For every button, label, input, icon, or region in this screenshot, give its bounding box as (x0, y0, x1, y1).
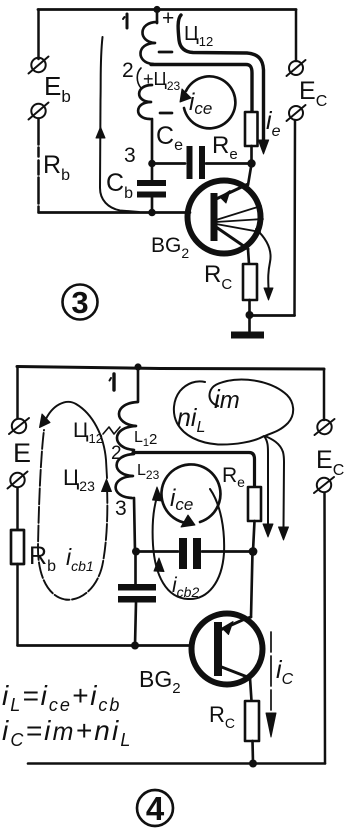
label Ce (156, 122, 183, 154)
label im (214, 384, 240, 414)
svg-text:RC: RC (209, 702, 235, 731)
junction dot emitter node circuit4 (249, 547, 258, 556)
battery EC terminal lower circuit4 (314, 477, 334, 493)
svg-text:im: im (214, 384, 240, 414)
junction dot ground node (246, 311, 254, 319)
wire RC to ground node (248, 300, 251, 314)
svg-text:BG2: BG2 (151, 234, 189, 261)
wire right border lower circuit4 (323, 493, 326, 764)
junction dot node3 emitter wire (148, 160, 156, 168)
wire collector to RC (248, 249, 249, 264)
label circuit 3 badge (63, 285, 98, 321)
battery EC terminal lower (287, 105, 306, 121)
wire emitter lead up circuit4 (247, 617, 251, 618)
svg-text:4: 4 (146, 790, 165, 827)
svg-text:EC: EC (299, 77, 327, 110)
svg-text:Rb: Rb (43, 151, 70, 184)
label ice (189, 89, 212, 118)
label RC circuit4 (209, 702, 235, 731)
resistor Re circuit4 (248, 487, 261, 521)
svg-text:2: 2 (122, 59, 134, 82)
resistor RC circuit4 (245, 701, 259, 741)
capacitor Ce circuit4 (179, 538, 201, 569)
label U12 (184, 23, 213, 49)
svg-text:iL=ice+icb: iL=ice+icb (2, 680, 121, 715)
transistor BG2 circuit4 (192, 614, 263, 685)
capacitor Ce (187, 146, 206, 179)
svg-text:iC=im+niL: iC=im+niL (2, 715, 133, 750)
equation iC (2, 715, 133, 750)
wire top border net1 (38, 8, 296, 11)
label Eb (44, 71, 71, 106)
battery E terminal lower (8, 472, 28, 489)
svg-text:BG2: BG2 (139, 666, 181, 697)
label RC (204, 261, 232, 293)
current arrow ik (256, 229, 273, 300)
label niL (177, 404, 205, 436)
label node 3 circuit4 (115, 497, 127, 520)
svg-text:iC: iC (276, 656, 294, 688)
label EC circuit4 (316, 446, 344, 479)
svg-text:Cb: Cb (106, 169, 133, 202)
battery EC terminal upper circuit4 (315, 419, 335, 435)
wire emitter horizontal (152, 162, 251, 165)
wire Cb to base circuit4 (135, 603, 136, 646)
junction dot bottom border circuit4 (249, 760, 257, 768)
wire node2 to Re (151, 65, 252, 113)
label M12 (73, 419, 103, 446)
junction dot node1 (153, 6, 160, 13)
svg-text:Eb: Eb (44, 71, 71, 106)
label node 2 (122, 59, 134, 82)
capacitor Cb (137, 180, 166, 198)
label Rb circuit4 (29, 542, 56, 575)
battery Eb terminal upper (29, 57, 49, 74)
svg-text:RC: RC (204, 261, 232, 293)
equation iL (2, 680, 121, 715)
battery Eb terminal lower (29, 103, 49, 120)
wire node3 down circuit4 (134, 498, 135, 551)
current loop ice circuit4 (161, 464, 220, 527)
wire base net bottom (39, 211, 191, 214)
resistor Re (245, 112, 258, 146)
current loop ice (180, 76, 235, 128)
label node 1 circuit4 (110, 374, 115, 390)
label plus U12 (162, 7, 174, 30)
coil link squiggle (103, 427, 120, 434)
svg-text:E: E (13, 438, 31, 468)
svg-text:ice: ice (189, 89, 212, 118)
label icb1 (66, 544, 94, 574)
svg-text:niL: niL (177, 404, 205, 436)
label Rb (43, 151, 70, 184)
wire ground node to right border corner (250, 314, 295, 317)
inductor L23 coil circuit4 (116, 454, 134, 498)
wire node3 down to Cb (151, 119, 154, 180)
label icb2 (172, 574, 199, 600)
label BG2 (151, 234, 189, 261)
current arrow ib loop (96, 37, 139, 212)
wire right border EC lower (293, 120, 296, 316)
wire right border EC upper (295, 10, 298, 62)
wire node2 to Re circuit4 (133, 453, 255, 488)
svg-text:ice: ice (170, 485, 193, 514)
svg-text:ie: ie (266, 107, 281, 140)
resistor RC (243, 264, 257, 300)
svg-text:icb2: icb2 (172, 574, 199, 600)
svg-text:+: + (162, 7, 174, 30)
svg-text:L23: L23 (137, 462, 160, 482)
wire Re bottom to emitter node circuit4 (253, 521, 255, 551)
inductor L23 coil (138, 85, 152, 119)
inductor L12 coil circuit4 (117, 402, 138, 450)
junction dot emitter node (247, 159, 255, 167)
label circuit 4 badge (137, 790, 173, 827)
current arrow niL (174, 381, 273, 537)
battery E terminal upper (9, 418, 29, 434)
label EC (299, 77, 327, 110)
wire node1 to coil circuit4 (137, 367, 140, 401)
svg-text:Ц12: Ц12 (184, 23, 213, 49)
wire emitter horizontal circuit4 (135, 550, 252, 553)
wire top border net1 circuit4 (17, 367, 324, 370)
junction dot base circuit4 (131, 642, 139, 650)
wire emitter node to transistor (248, 164, 252, 185)
wire E to Rb (16, 488, 19, 530)
wire RC to bottom border (251, 741, 254, 763)
svg-text:Re: Re (222, 464, 245, 490)
svg-text:EC: EC (316, 446, 344, 479)
svg-text:Re: Re (212, 132, 238, 163)
current arrow ie (178, 15, 269, 154)
junction dot node3 circuit4 (132, 548, 140, 556)
label ice circuit4 (170, 485, 193, 514)
current loop icb2 (153, 487, 225, 599)
label E (13, 438, 31, 468)
inductor L12 coil (140, 22, 157, 64)
junction dot base Cb (148, 209, 156, 217)
svg-text:+Ц23: +Ц23 (143, 69, 181, 93)
svg-text:Ц23: Ц23 (63, 465, 95, 494)
transistor BG2 (188, 181, 264, 254)
wire Rb to corner (16, 564, 19, 645)
wire Cb top circuit4 (134, 552, 137, 585)
svg-text:3: 3 (71, 285, 88, 320)
label L23 (137, 462, 160, 482)
svg-text:L12: L12 (134, 429, 157, 449)
label node 1 (123, 14, 127, 28)
wire collector to RC circuit4 (250, 678, 252, 701)
svg-text:Ce: Ce (156, 122, 183, 154)
label minus U23 (160, 112, 172, 115)
battery EC terminal upper (287, 60, 306, 76)
label node 3 (124, 144, 136, 167)
label BG2 circuit4 (139, 666, 181, 697)
wire left border top (37, 10, 40, 60)
label L12 (134, 429, 157, 449)
current arrow iC circuit4 (266, 632, 276, 737)
label M23 (63, 465, 95, 494)
ground (231, 315, 264, 339)
wire Cb to base wire (151, 198, 154, 213)
label Cb (106, 169, 133, 202)
current arrow im (209, 380, 293, 540)
svg-text:3: 3 (115, 497, 127, 520)
svg-text:3: 3 (124, 144, 136, 167)
label Re circuit4 (222, 464, 245, 490)
wire base net circuit4 (18, 644, 192, 647)
svg-text:Rb: Rb (29, 542, 56, 575)
label node 2 circuit4 (111, 443, 122, 464)
label Re (212, 132, 238, 163)
wire Re bottom to emitter node (250, 146, 253, 163)
label plus U23 (137, 68, 180, 93)
svg-text:Ц12: Ц12 (73, 419, 103, 446)
wire bottom border circuit4 (28, 762, 325, 765)
wire node1 to coil L12 (156, 10, 159, 23)
svg-text:icb1: icb1 (66, 544, 94, 574)
wire Eb to bottom-left corner (37, 119, 40, 212)
resistor Rb (11, 530, 24, 564)
label minus U12 (159, 51, 172, 54)
wire emitter node to transistor circuit4 (251, 552, 253, 617)
capacitor Cb circuit4 (118, 584, 156, 603)
wire left border top circuit4 (16, 367, 19, 418)
label ie (266, 107, 281, 140)
junction dot node1 circuit4 (134, 363, 141, 370)
current loop icb1 (38, 402, 112, 600)
wire right border upper circuit4 (323, 369, 326, 420)
label iC circuit4 (276, 656, 294, 688)
svg-text:2: 2 (111, 443, 122, 464)
